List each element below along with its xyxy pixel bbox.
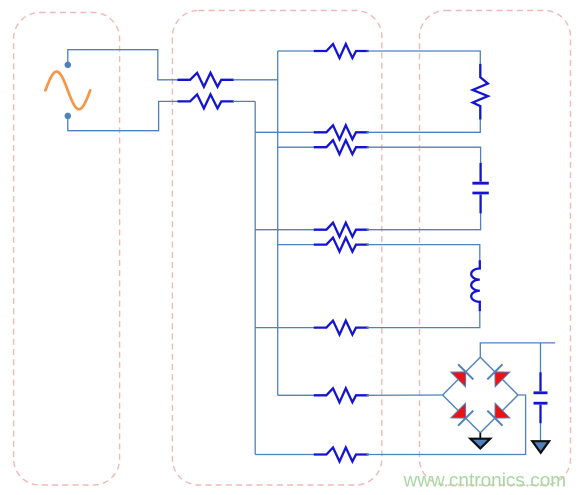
wire bus A to R9 [278,394,316,396]
inductor L1 (load) [471,260,480,311]
wire bus A (node A) [277,51,279,395]
wire bus B to R10 [255,454,316,456]
wire L1 to R8 (load 3 return) [367,311,480,328]
resistor R11 (load) [473,65,488,118]
wire bus A to R5 [278,146,316,148]
diode D2 (upper right) [495,372,510,387]
resistor R10 [315,448,368,462]
wire bus B (node B) [254,101,256,454]
resistor R6 [315,223,368,237]
capacitor C1 (load) [479,163,481,182]
wire C2 to ground [540,423,542,442]
wire output rail to capacitor C2 [540,343,542,373]
group box: load section [420,11,571,486]
wire C1 to R6 (load 2 return) [367,213,481,230]
ground under C2 [532,441,549,453]
V1 positive terminal dot [65,62,72,69]
wire R7 to inductor L1 [367,245,480,261]
resistor R1 [179,73,233,87]
wire R11 to R4 (load 1 return) [367,118,481,133]
wire bus B to R4 [255,131,316,133]
ground under bridge [479,433,481,439]
wire V1- to R2 [68,101,180,130]
V1 negative terminal dot [65,113,72,120]
wire R1 to bus A [233,79,278,81]
group box: resistor network section [172,11,381,486]
wire R5 to capacitor C1 [367,147,481,163]
AC source V1 sine symbol [45,72,90,110]
wire R9 to bridge left node [367,394,443,396]
diode D1 (upper left) [451,372,466,387]
svg-text:www.cntronics.com: www.cntronics.com [403,470,567,491]
wire bus B to R6 [255,229,316,231]
resistor R2 [179,94,233,108]
wire R2 to bus B [233,100,255,102]
resistor R8 [315,321,368,335]
resistor R7 [315,238,368,252]
wire R3 to load resistor R11 [367,51,481,66]
wire bus A top to R3 [278,50,316,52]
diode D4 (lower right) [495,403,510,418]
group box: AC source section [14,13,120,486]
resistor R4 [315,125,368,139]
resistor R3 [315,44,368,58]
wire bridge top node to output rail [480,343,555,357]
wire V1+ to R1 [68,50,180,80]
capacitor C2 (output filter) [539,372,541,391]
wire R10 to bridge right node [367,395,526,455]
diode bridge frame [443,357,518,433]
resistor R9 [315,388,368,402]
resistor R5 [315,140,368,154]
wire bus A to R7 [278,244,316,246]
diode D3 (lower left) [451,403,466,418]
wire bus B to R8 [255,327,316,329]
